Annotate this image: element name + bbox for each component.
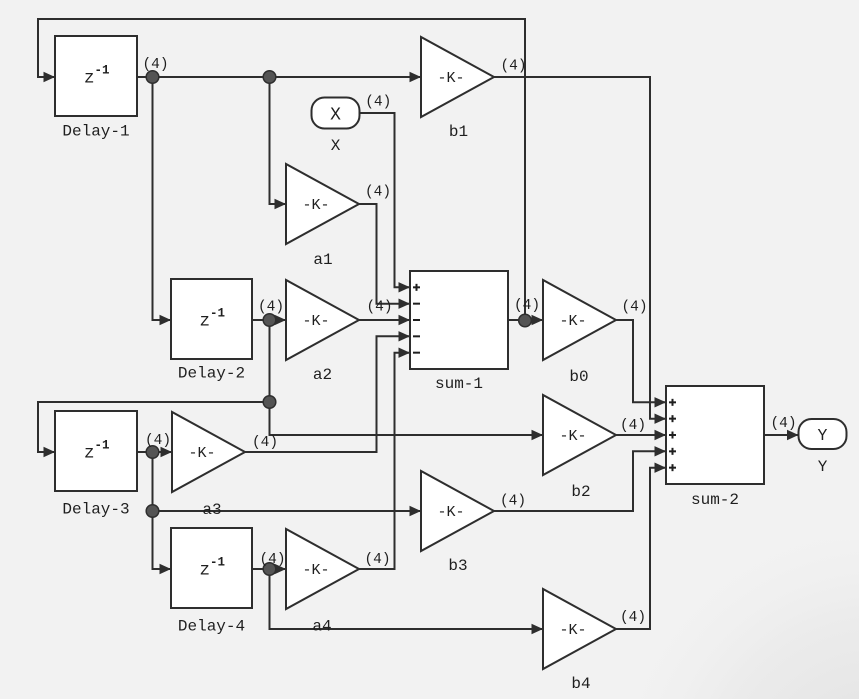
svg-text:(4): (4) xyxy=(365,95,391,111)
svg-text:b0: b0 xyxy=(569,368,588,386)
svg-text:sum-1: sum-1 xyxy=(435,375,483,393)
svg-text:a4: a4 xyxy=(312,618,331,636)
svg-text:a3: a3 xyxy=(202,501,221,519)
svg-text:b4: b4 xyxy=(571,675,590,693)
svg-text:(4): (4) xyxy=(142,57,168,73)
svg-text:(4): (4) xyxy=(514,298,540,314)
svg-text:-K-: -K- xyxy=(302,313,329,330)
svg-text:Delay-2: Delay-2 xyxy=(178,365,245,383)
svg-text:Y: Y xyxy=(818,426,828,445)
svg-text:-K-: -K- xyxy=(302,562,329,579)
svg-text:(4): (4) xyxy=(500,494,526,510)
svg-text:a2: a2 xyxy=(313,366,332,384)
svg-text:b1: b1 xyxy=(449,123,468,141)
svg-text:(4): (4) xyxy=(621,300,647,316)
svg-text:(4): (4) xyxy=(366,300,392,316)
svg-text:X: X xyxy=(331,137,341,155)
svg-text:(4): (4) xyxy=(500,59,526,75)
svg-text:-K-: -K- xyxy=(559,428,586,445)
svg-text:Delay-3: Delay-3 xyxy=(62,501,129,519)
svg-text:Y: Y xyxy=(818,458,828,476)
svg-text:-K-: -K- xyxy=(302,197,329,214)
svg-text:Delay-1: Delay-1 xyxy=(62,123,129,141)
svg-text:(4): (4) xyxy=(258,300,284,316)
svg-text:(4): (4) xyxy=(364,552,390,568)
svg-text:X: X xyxy=(330,105,341,125)
svg-text:(4): (4) xyxy=(252,435,278,451)
svg-text:-K-: -K- xyxy=(437,504,464,521)
svg-text:(4): (4) xyxy=(620,418,646,434)
svg-text:(4): (4) xyxy=(145,433,171,449)
svg-text:sum-2: sum-2 xyxy=(691,491,739,509)
svg-text:b3: b3 xyxy=(448,557,467,575)
svg-text:Delay-4: Delay-4 xyxy=(178,618,245,636)
svg-text:-K-: -K- xyxy=(559,622,586,639)
svg-text:-K-: -K- xyxy=(437,70,464,87)
svg-text:-K-: -K- xyxy=(188,445,215,462)
svg-text:-K-: -K- xyxy=(559,313,586,330)
svg-text:b2: b2 xyxy=(571,483,590,501)
svg-text:(4): (4) xyxy=(620,610,646,626)
svg-text:(4): (4) xyxy=(365,185,391,201)
svg-text:(4): (4) xyxy=(259,552,285,568)
svg-text:(4): (4) xyxy=(770,416,796,432)
svg-text:a1: a1 xyxy=(313,251,332,269)
